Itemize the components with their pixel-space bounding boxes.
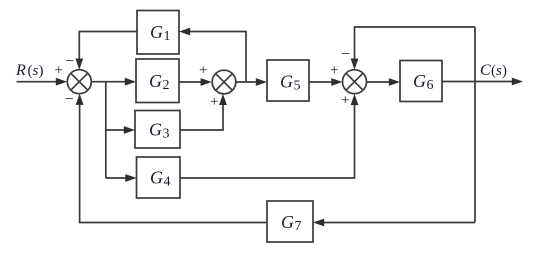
- svg-text:+: +: [199, 63, 207, 79]
- svg-text:+: +: [341, 93, 349, 109]
- wire: bottom feedback to G7: [318, 222, 475, 224]
- sign - at S1 bottom: [65, 91, 74, 108]
- value label G2: [149, 71, 170, 93]
- summing junction S1: [67, 70, 91, 94]
- svg-text:6: 6: [427, 78, 434, 93]
- svg-text:2: 2: [163, 78, 170, 93]
- wire: branch up from S2 output to G1 input: [184, 32, 246, 83]
- wire: branch down from S1 output node: [105, 82, 107, 178]
- svg-text:G: G: [281, 212, 294, 232]
- value label G3: [149, 120, 170, 142]
- svg-text:+: +: [55, 63, 63, 79]
- svg-text:−: −: [341, 46, 350, 63]
- block G6: [400, 61, 442, 102]
- arrowhead: into G6: [389, 78, 400, 86]
- svg-text:1: 1: [164, 29, 171, 44]
- wire: G4 output to bottom of S3: [180, 99, 355, 178]
- sign + at S2 bottom: [210, 94, 218, 110]
- svg-text:R: R: [15, 62, 26, 79]
- svg-text:G: G: [413, 71, 426, 91]
- svg-text:G: G: [280, 72, 293, 92]
- arrowhead: into G4: [125, 174, 136, 182]
- arrowhead: C(s) output: [512, 78, 523, 86]
- value label G5: [280, 72, 301, 94]
- arrowhead: into G3: [124, 126, 135, 134]
- value label G6: [413, 71, 434, 93]
- svg-text:−: −: [65, 53, 74, 70]
- arrowhead: into S1 from R(s): [56, 78, 67, 86]
- wire: G5 to S3: [309, 81, 338, 83]
- arrowhead: into S1 from top (G1 path): [75, 59, 83, 70]
- block G1: [137, 11, 179, 55]
- block G5: [267, 60, 309, 101]
- wire: top feedback to top of S3: [355, 27, 476, 65]
- sign + at S3 left: [330, 63, 338, 79]
- wire: branch to G3: [106, 129, 130, 131]
- svg-text:+: +: [330, 63, 338, 79]
- label C(s): [480, 62, 507, 79]
- sign + at S3 bottom: [341, 93, 349, 109]
- svg-text:4: 4: [164, 175, 171, 190]
- arrowhead: into G7: [313, 219, 324, 227]
- svg-text:−: −: [65, 91, 74, 108]
- arrowhead: into S2 from G2: [201, 78, 212, 86]
- label R(s): [15, 62, 44, 79]
- svg-text:): ): [502, 63, 507, 79]
- svg-text:+: +: [210, 94, 218, 110]
- value label G4: [150, 168, 171, 190]
- value label G1: [150, 22, 171, 44]
- sign - at S3 top: [341, 46, 350, 63]
- svg-text:G: G: [149, 71, 162, 91]
- summing junction S2: [212, 70, 236, 94]
- arrowhead: into G1 (feedback from S2 output): [179, 28, 190, 36]
- sign - at S1 top: [65, 53, 74, 70]
- wire: branch to G4: [106, 177, 132, 179]
- summing junction S3: [343, 70, 367, 94]
- svg-text:G: G: [149, 120, 162, 140]
- svg-text:5: 5: [294, 79, 301, 94]
- svg-text:C: C: [480, 62, 491, 79]
- sign + at S1 left: [55, 63, 63, 79]
- arrowhead: into G5: [256, 78, 267, 86]
- wire: S3 to G6: [367, 81, 396, 83]
- sign + at S2 left: [199, 63, 207, 79]
- svg-text:3: 3: [163, 127, 170, 142]
- arrowhead: into S1 from bottom (G7 path): [76, 94, 84, 105]
- wire: G2 to S2: [179, 81, 207, 83]
- svg-text:G: G: [150, 168, 163, 188]
- block G2: [136, 59, 179, 103]
- arrowhead: into G2: [125, 78, 136, 86]
- arrowhead: into S3 from G5: [331, 78, 342, 86]
- svg-text:): ): [39, 63, 44, 79]
- arrowhead: into S3 from top: [351, 59, 359, 70]
- block G7: [267, 201, 313, 242]
- wire: takeoff vertical line at output node: [474, 27, 476, 223]
- block G3: [135, 111, 180, 149]
- arrowhead: into S2 from below (G3 path): [219, 94, 227, 105]
- svg-text:7: 7: [295, 219, 302, 234]
- value label G7: [281, 212, 302, 234]
- svg-text:G: G: [150, 22, 163, 42]
- block G4: [137, 157, 181, 198]
- wire: R(s) input to S1: [17, 81, 63, 83]
- wire: G1 output to top of S1: [79, 32, 137, 65]
- arrowhead: into S3 from bottom (G4 path): [351, 94, 359, 105]
- wire: G3 output to under S2: [180, 99, 223, 130]
- wire: G7 output to bottom of S1: [80, 99, 267, 223]
- wire: S2 to G5: [236, 81, 262, 83]
- wire: G6 to C(s) output: [442, 81, 518, 83]
- wire: S1 to G2: [91, 81, 131, 83]
